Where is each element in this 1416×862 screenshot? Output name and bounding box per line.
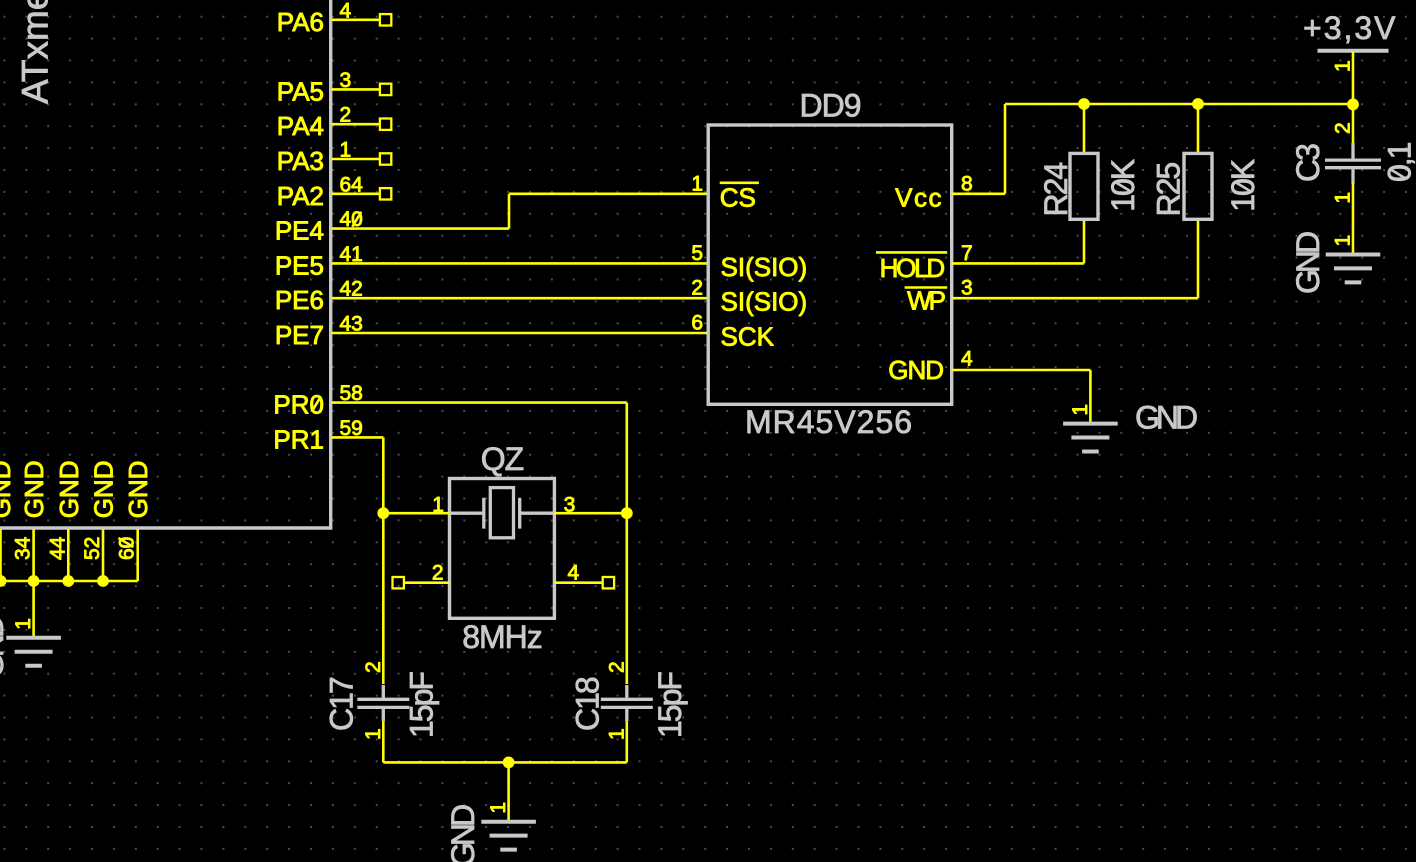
pin stub PA4	[332, 123, 380, 126]
svg-text:CS: CS	[720, 182, 756, 212]
GND pin stub #5	[136, 530, 139, 582]
svg-text:1: 1	[605, 728, 628, 740]
svg-text:SI(SIO): SI(SIO)	[721, 287, 808, 317]
svg-text:1: 1	[1332, 192, 1355, 204]
svg-text:34: 34	[12, 536, 35, 560]
slashed zero in 0,1	[1391, 170, 1406, 179]
svg-text:5: 5	[691, 242, 703, 265]
svg-text:15pF: 15pF	[404, 672, 440, 738]
svg-text:3: 3	[564, 493, 576, 516]
svg-text:R24: R24	[1038, 163, 1074, 217]
wire C17 upper lead	[382, 513, 385, 684]
wire PE7 to DD9	[332, 332, 709, 335]
pin stub PA6	[332, 18, 380, 21]
IC ATxmega body (partial)	[0, 0, 331, 528]
svg-text:MR45V256: MR45V256	[745, 404, 913, 440]
svg-text:GND: GND	[123, 461, 153, 519]
svg-text:QZ: QZ	[481, 441, 524, 477]
slashed zero in 10K (R24)	[1115, 182, 1130, 191]
svg-text:GND: GND	[445, 805, 481, 862]
unconnected pin marker QZ pin 4	[603, 577, 614, 588]
GND pin stub #1	[0, 530, 2, 582]
wire Vcc rail riser	[1004, 104, 1007, 194]
wire DD9 pin 4 GND	[952, 369, 1091, 372]
junction GND bus #4	[97, 575, 109, 587]
slashed zero in 40	[352, 212, 361, 227]
crystal element inside QZ	[450, 488, 555, 538]
svg-text:1: 1	[487, 802, 510, 814]
pin stub PA5	[332, 88, 380, 91]
svg-text:WP: WP	[907, 286, 945, 316]
wire PR0 horizontal	[332, 401, 627, 404]
svg-text:PA6: PA6	[277, 7, 324, 37]
svg-text:1: 1	[1332, 235, 1355, 247]
svg-text:SI(SIO): SI(SIO)	[721, 252, 808, 282]
capacitor C17	[357, 685, 409, 721]
junction QZ pin3/C18	[621, 507, 633, 519]
svg-text:GND: GND	[89, 461, 119, 519]
wire PE6 to DD9	[332, 297, 709, 300]
wire DD9 pin 3 WP	[952, 297, 1198, 300]
svg-text:PE5: PE5	[275, 250, 324, 280]
svg-text:ATxmeg: ATxmeg	[15, 0, 56, 104]
svg-text:GND: GND	[1290, 232, 1326, 294]
svg-text:44: 44	[46, 536, 69, 560]
svg-text:PA2: PA2	[277, 181, 324, 211]
unconnected pin marker PA5	[380, 84, 391, 95]
svg-text:SCK: SCK	[721, 322, 775, 352]
svg-text:2: 2	[432, 562, 444, 585]
capacitor C3	[1325, 143, 1381, 184]
svg-text:6: 6	[691, 312, 703, 335]
svg-text:+3,3V: +3,3V	[1303, 10, 1398, 46]
IC DD9 body	[708, 125, 952, 404]
ground symbol (MCU GND bus)	[6, 638, 61, 666]
svg-text:7: 7	[961, 242, 973, 265]
junction Vcc/R25	[1192, 98, 1204, 110]
+3,3V supply symbol bar	[1318, 49, 1389, 53]
svg-text:1: 1	[12, 618, 35, 630]
wire C3 to ground	[1352, 183, 1355, 255]
pin stub QZ pin 2	[404, 581, 450, 584]
svg-text:1: 1	[691, 172, 703, 195]
junction GND bus #2	[28, 575, 40, 587]
unconnected pin marker PA2	[380, 188, 391, 199]
wire R25 lower lead	[1197, 219, 1200, 298]
svg-text:2: 2	[1332, 122, 1355, 134]
wire PR1 vertical	[382, 437, 385, 513]
svg-text:8: 8	[961, 172, 973, 195]
junction QZ pin1/C17	[377, 507, 389, 519]
svg-text:1: 1	[1069, 404, 1092, 416]
svg-text:PE4: PE4	[275, 216, 324, 246]
svg-text:GND: GND	[54, 461, 84, 519]
svg-text:8MHz: 8MHz	[462, 619, 542, 655]
wire +3,3V to rail	[1352, 52, 1355, 104]
ground symbol (DD9 pin 4)	[1063, 424, 1118, 452]
resistor R25 body	[1184, 153, 1212, 219]
GND pin stub #4	[102, 530, 105, 582]
unconnected pin marker QZ pin 2	[393, 577, 404, 588]
svg-text:R25: R25	[1151, 163, 1187, 217]
svg-text:PE7: PE7	[275, 320, 324, 350]
svg-text:15pF: 15pF	[652, 672, 688, 738]
wire Vcc rail horizontal	[1005, 103, 1353, 106]
wire PE5 to DD9	[332, 262, 709, 265]
pin stub QZ pin 4	[554, 581, 603, 584]
svg-text:2: 2	[691, 277, 703, 300]
ground symbol (C3)	[1326, 255, 1381, 283]
unconnected pin marker PA6	[380, 14, 391, 25]
wire C18 upper lead	[625, 513, 628, 684]
svg-text:HOLD: HOLD	[880, 253, 945, 283]
resistor R24 body	[1070, 153, 1098, 219]
svg-text:2: 2	[362, 661, 385, 673]
svg-text:2: 2	[605, 661, 628, 673]
unconnected pin marker PA4	[380, 119, 391, 130]
wire C3 upper lead	[1352, 104, 1355, 144]
wire C18 lower lead	[625, 721, 628, 762]
svg-text:1: 1	[362, 728, 385, 740]
slashed zero in 60	[118, 538, 133, 547]
svg-text:DD9: DD9	[799, 88, 860, 124]
wire crystal ground rail	[383, 761, 627, 764]
wire DD9 pin 8 Vcc	[952, 193, 1005, 196]
GND bus wire	[0, 580, 138, 583]
GND pin stub #2	[32, 530, 35, 582]
wire to ground symbol (crystal)	[507, 762, 510, 821]
svg-text:GND: GND	[1135, 400, 1197, 436]
svg-text:C3: C3	[1290, 144, 1326, 182]
wire C17 lower lead	[382, 721, 385, 762]
wire R24 lower lead	[1083, 219, 1086, 263]
svg-text:C18: C18	[570, 677, 606, 731]
svg-text:C17: C17	[323, 677, 359, 731]
slashed zero in 10K (R25)	[1235, 182, 1250, 191]
wire PR1 horizontal	[332, 436, 384, 439]
ground symbol (crystal)	[481, 822, 536, 850]
svg-text:GND: GND	[0, 616, 10, 678]
unconnected pin marker PA3	[380, 153, 391, 164]
wire to DD9 CS pin 1	[509, 193, 708, 196]
svg-text:4: 4	[568, 562, 580, 585]
capacitor C18	[601, 685, 653, 721]
svg-text:GND: GND	[888, 355, 943, 385]
svg-text:Vcc: Vcc	[895, 182, 943, 212]
svg-text:1: 1	[432, 493, 444, 516]
wire PE4 horizontal	[332, 227, 509, 230]
svg-text:3: 3	[961, 277, 973, 300]
slashed zero in PR0	[312, 397, 321, 412]
svg-text:PA5: PA5	[277, 76, 324, 106]
svg-text:PR1: PR1	[273, 424, 324, 454]
wire PR0 vertical	[625, 403, 628, 514]
svg-text:4: 4	[961, 348, 973, 371]
wire to ground symbol (DD9)	[1089, 370, 1092, 424]
junction GND bus #3	[62, 575, 74, 587]
crystal QZ body	[450, 479, 555, 619]
junction Vcc rail/C3	[1347, 99, 1359, 111]
junction ground rail	[503, 757, 515, 769]
junction Vcc/R24	[1078, 98, 1090, 110]
pin stub PA3	[332, 158, 380, 161]
wire QZ pin 3	[554, 512, 626, 515]
svg-text:GND: GND	[0, 461, 16, 519]
wire to ground symbol	[32, 581, 35, 638]
svg-text:PE6: PE6	[275, 285, 324, 315]
junction GND bus #1	[0, 575, 6, 587]
wire PE4 vertical jog	[508, 194, 511, 229]
svg-text:PA3: PA3	[277, 146, 324, 176]
svg-text:52: 52	[81, 537, 104, 560]
wire R25 upper lead	[1197, 104, 1200, 153]
wire R24 upper lead	[1083, 104, 1086, 153]
svg-text:GND: GND	[19, 461, 49, 519]
svg-text:PA4: PA4	[277, 111, 324, 141]
svg-text:0,1: 0,1	[1381, 142, 1416, 182]
wire QZ pin 1	[383, 512, 449, 515]
pin stub PA2	[332, 193, 380, 196]
svg-text:60: 60	[116, 537, 139, 560]
svg-text:1: 1	[1332, 60, 1355, 72]
GND pin stub #3	[67, 530, 70, 582]
wire DD9 pin 7 HOLD	[952, 262, 1084, 265]
